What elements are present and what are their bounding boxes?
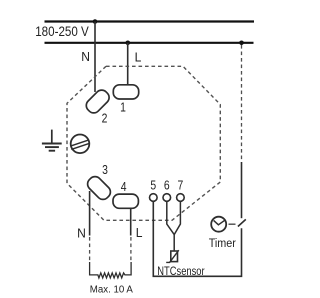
svg-text:1: 1 [120, 101, 126, 115]
svg-text:2: 2 [102, 111, 108, 125]
svg-text:4: 4 [121, 180, 127, 194]
terminal 5 [150, 194, 158, 202]
ground [42, 130, 62, 151]
wire timer feed dashed [241, 45, 243, 162]
wire L drop [127, 43, 129, 85]
timer switch blade [238, 219, 246, 226]
contact 2 [84, 87, 112, 115]
svg-text:Max. 10 A: Max. 10 A [90, 284, 134, 295]
timer clock [211, 217, 226, 232]
svg-text:7: 7 [178, 178, 184, 192]
contact 3 [85, 174, 113, 202]
svg-text:Timer: Timer [209, 238, 236, 251]
svg-text:3: 3 [102, 163, 108, 177]
svg-text:180-250 V: 180-250 V [35, 23, 89, 39]
terminal 6 [163, 194, 171, 202]
wire N drop [94, 22, 96, 93]
svg-text:6: 6 [164, 178, 170, 192]
svg-text:N: N [81, 50, 90, 64]
contact 4 [113, 194, 138, 208]
svg-text:L: L [136, 226, 143, 240]
sensor loop wire from terminal 5 to timer switch [153, 202, 241, 276]
timer dashed link [229, 223, 236, 225]
node L junction dot [126, 41, 131, 46]
wire load N dashed [89, 237, 91, 263]
wire load L solid [130, 209, 132, 236]
svg-text:NTCsensor: NTCsensor [157, 265, 205, 278]
node timer junction dot [239, 41, 244, 46]
thermostat body dashed octagon [67, 66, 220, 220]
terminal 7 [177, 194, 185, 202]
svg-text:L: L [135, 50, 142, 64]
wires terminals 6,7 to NTC [167, 202, 181, 251]
power rail bottom [45, 42, 254, 44]
trimmer screw adjustment [71, 135, 90, 154]
svg-text:5: 5 [150, 178, 156, 192]
wire load L dashed [130, 237, 132, 263]
wire load N solid [89, 191, 91, 236]
heating element resistor Max 10A [90, 262, 132, 278]
node N junction dot [93, 19, 98, 24]
NTC thermistor [171, 251, 178, 262]
svg-text:N: N [77, 226, 86, 240]
power rail top (phase line) [45, 20, 255, 22]
wire timer feed solid [241, 162, 243, 218]
contact 1 [113, 85, 138, 99]
